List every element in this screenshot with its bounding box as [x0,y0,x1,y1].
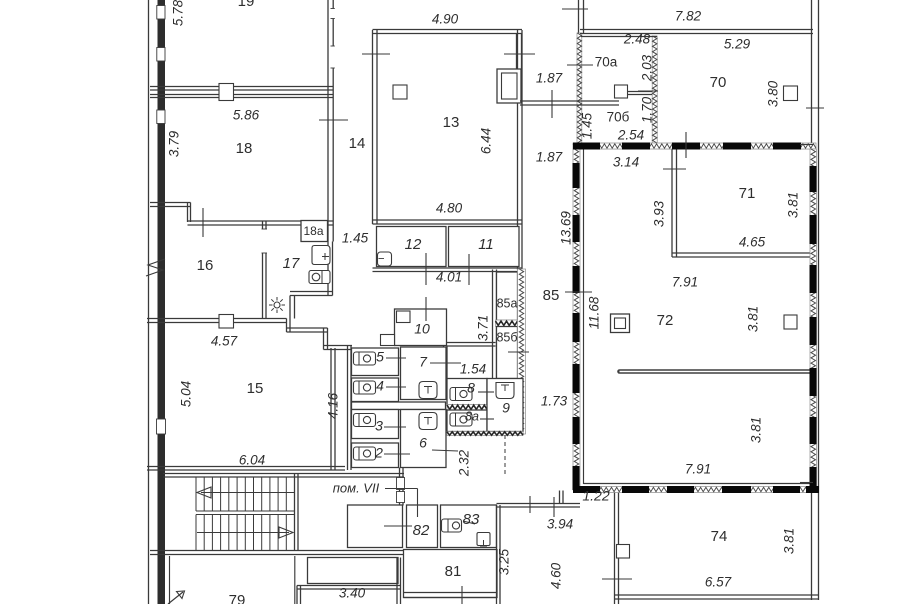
svg-text:6.57: 6.57 [705,575,732,590]
svg-text:81: 81 [445,563,462,580]
step wall y330 [287,327,328,329]
sink fixture room 83 [477,533,490,546]
wall between rooms 19 and 18 [150,86,333,88]
svg-text:1.45: 1.45 [580,112,595,139]
tick top dashed wall [685,132,687,158]
urinal fixture room 8a [450,413,472,426]
svg-text:пом. VII: пом. VII [333,480,380,495]
zigzag divider 85a/85b [496,320,518,327]
svg-text:12: 12 [405,236,422,253]
svg-text:70: 70 [710,74,727,91]
svg-text:18a: 18a [303,224,323,238]
svg-text:72: 72 [657,312,674,329]
svg-text:5: 5 [376,349,384,365]
svg-text:3.81: 3.81 [749,417,764,443]
step wall at x189 [187,203,189,223]
svg-text:3.40: 3.40 [339,586,366,601]
urinal fixture room 8 [450,388,472,401]
closet room 82 box [348,505,403,548]
leader closet 5 [386,357,406,359]
thick dashed boundary right [810,166,817,192]
tick right wall y108 [806,107,824,109]
room 18 top face line [150,94,333,96]
room 81 box [404,550,498,598]
box on wall room15 top [219,315,234,329]
thick dashed boundary left [573,163,580,188]
tick room13 right wall [504,53,535,55]
small box left of room 10 [381,335,395,346]
thick dashed boundary top [573,143,600,150]
svg-text:5.78: 5.78 [171,0,186,26]
svg-text:3.14: 3.14 [613,155,639,170]
room 8 box [447,379,487,406]
svg-text:17: 17 [283,255,300,272]
svg-text:4.57: 4.57 [211,334,238,349]
sink fixture room 17 [309,271,330,284]
svg-text:13.69: 13.69 [559,211,574,245]
tick at 85 label [565,291,592,293]
room 8a box [447,410,487,432]
urinal fixture room 5 [354,352,376,365]
wall x445 between room7 and corridor 1.54 [443,346,445,382]
svg-text:4.60: 4.60 [549,562,564,589]
hatched wall right of room 70a [652,36,657,143]
tick room13 left wall [362,53,390,55]
wall between rooms 16 and 17 [262,221,264,319]
corridor wall piece x561 [559,491,561,504]
stair hall top wall [163,473,404,475]
hatched wall under dashed boundary top [573,143,816,149]
svg-text:4.16: 4.16 [326,392,341,419]
svg-text:2.54: 2.54 [617,128,644,143]
wall room16 top / 18 bottom [188,220,334,222]
svg-text:3.80: 3.80 [766,80,781,107]
niche box on room 74 wall [617,545,630,559]
svg-text:3.71: 3.71 [476,315,491,341]
svg-text:85: 85 [543,287,560,304]
hatched wall under dashed boundary right [810,149,817,491]
svg-text:2.48: 2.48 [623,32,651,47]
svg-text:8: 8 [467,380,475,396]
wall y103 below 70a [520,100,619,102]
svg-text:83: 83 [463,511,480,528]
small square room 72 right [784,315,797,329]
svg-text:5.86: 5.86 [233,108,260,123]
svg-text:14: 14 [349,135,366,152]
svg-text:1.87: 1.87 [536,150,563,165]
svg-text:3.93: 3.93 [652,200,667,227]
toilet fixture room 83 [442,519,462,532]
wall y347 joining closet block [324,345,353,347]
wall top x581 [578,0,580,33]
room 85b box [497,327,518,379]
tick corridor 3.94 [553,497,555,517]
leader closet 2 [384,453,410,455]
svg-text:11: 11 [478,236,494,253]
svg-text:74: 74 [711,528,728,545]
svg-text:3.81: 3.81 [786,192,801,218]
tick wall x330 [319,119,348,121]
svg-text:2: 2 [374,445,383,461]
wall y344 right of room 10 [447,342,496,344]
hatched wall under dashed boundary left [573,149,580,490]
svg-text:6.04: 6.04 [239,453,265,468]
middle closet box [407,505,438,548]
svg-text:3.79: 3.79 [167,130,182,157]
small square room 70 [784,86,798,101]
top wall of rooms 70a/70 [580,29,813,31]
3.40 room left wall [296,586,298,604]
svg-text:4.65: 4.65 [739,235,766,250]
svg-text:3.81: 3.81 [746,306,761,332]
leader room 82 [384,525,412,527]
closet room 5 box [352,348,399,376]
room 11 box [449,227,520,267]
urinal fixture room 2 [354,447,376,460]
room 9 box [487,379,523,432]
shaft box with inner rectangle [497,69,521,103]
slot mid in left wall [157,48,165,62]
wall x401 room6 down to closets [399,468,401,506]
wall above 3.40 room [297,585,401,587]
svg-text:8a: 8a [465,409,479,423]
rooms 12/11 bottom wall [373,267,523,269]
tick room71 left wall [663,168,686,170]
electric box room 70b [615,85,628,98]
stair landing lines [196,510,295,512]
svg-text:4.80: 4.80 [436,201,463,216]
stair up-arrow upper flight [201,492,294,494]
outer wall left thick [158,0,166,604]
room 71 bottom wall [672,252,813,254]
svg-text:85б: 85б [496,330,517,344]
inner face line below top dashed wall [584,148,811,150]
slot upper in left wall [157,6,165,20]
hatched wall left of room 70a [577,33,582,143]
svg-text:79: 79 [229,592,246,604]
ceiling lamp symbol [274,302,280,308]
room 83 box [441,505,497,548]
svg-text:18: 18 [236,140,253,157]
box A right line [294,556,296,604]
window slots in wall x333 [332,9,335,19]
svg-text:11.68: 11.68 [587,296,602,329]
svg-text:7.91: 7.91 [672,275,698,290]
room 7 box [401,347,447,400]
window slot in left wall [157,419,166,434]
entrance arrow bottom-left [168,592,183,604]
svg-text:70a: 70a [595,55,618,70]
tick hatched wall 85b [508,351,529,353]
svg-text:1.70: 1.70 [640,96,655,123]
room 15 bottom wall [147,466,345,468]
tick below room 81 [461,586,463,604]
closet room 2 box [352,443,399,468]
double line from box to wall [628,91,653,93]
hatched wall under dashed boundary bottom [580,487,816,493]
svg-text:70б: 70б [607,110,630,125]
leader room 8a [480,418,494,420]
toilet fixture room 17 [312,246,330,265]
room 18a closet box [301,221,328,242]
sink in room 12 [378,252,392,266]
wall right of room 17 nook [327,242,329,296]
outer wall left thin line [148,0,150,604]
electric panel box on wall 19/18 [219,84,234,101]
inner face line right of left dashed wall [583,149,585,485]
svg-text:5.04: 5.04 [179,381,194,407]
closet room 3 box [352,410,399,439]
svg-text:4: 4 [376,378,384,394]
room 13 left wall [372,30,374,224]
corridor double wall in sanitary block [352,402,446,410]
room 12 box [377,227,447,267]
small square box in room 13 [393,85,407,99]
svg-text:85a: 85a [497,296,518,310]
door niche upper on wall x401 [397,478,405,490]
tick wall y505 [529,496,531,513]
hatched wall right of 85a/85b and room 9 [518,269,526,434]
svg-text:13: 13 [443,114,460,131]
svg-text:4.01: 4.01 [436,270,462,285]
room 6 box [401,410,447,468]
thick dashed boundary bottom [573,486,600,493]
tick room10 top [425,297,427,321]
room 10 box [395,309,447,346]
urinal fixture room 3 [354,414,376,427]
leader closet 4 [386,386,406,388]
step wall x325 [323,328,325,350]
svg-text:2.32: 2.32 [457,449,472,477]
right outer wall [811,0,813,600]
room 13 top wall [373,29,523,31]
slot lower in left wall [157,110,165,124]
zigzag divider rooms 8/8a [447,405,487,411]
svg-text:9: 9 [502,400,510,416]
column inner square [615,318,626,329]
room 15 right wall [330,348,332,470]
svg-text:10: 10 [414,321,430,337]
svg-text:15: 15 [247,380,264,397]
svg-text:7.91: 7.91 [685,462,711,477]
svg-text:71: 71 [739,185,756,202]
wall right of rooms 19/18 [327,0,329,242]
svg-text:4.90: 4.90 [432,12,459,27]
svg-text:3.81: 3.81 [782,528,797,554]
room 71 left wall [671,148,673,257]
room 85a box [497,272,518,321]
room 72 partition wall [620,369,810,374]
svg-text:7: 7 [419,354,428,370]
corridor left wall x349 [347,346,349,471]
small room above 3.40 room [308,558,399,584]
sink fixture room 7 [419,382,437,399]
svg-text:6.44: 6.44 [479,128,494,154]
corridor top wall y505 [497,503,581,505]
room 17 nook bottom wall [290,291,333,293]
leader room 70a [567,64,593,66]
tick wall y268 right [468,254,470,285]
room 81 bottom double wall [404,592,498,594]
door niche lower on wall x401 [397,492,405,503]
thin corner line bottom right [800,482,813,484]
leader closet 3 [384,426,406,428]
thin dashed line below room 9 [504,435,506,475]
column box in room 72 [611,314,630,333]
room 18 bottom-left wall [150,202,191,204]
tick wall x581 top [562,8,588,10]
leader pom VII [385,488,418,490]
leader room 7 [430,362,461,364]
wall x399 bottom area [396,558,398,604]
corridor left wall x498 bottom zone [496,505,498,604]
tick hatched wall 2.03/1.70 [638,90,658,92]
leader room 6 [432,450,458,451]
wall above shaft [516,34,518,70]
room 13 / 11 right wall [517,30,519,270]
room 13 bottom wall [373,219,523,221]
svg-text:1.73: 1.73 [541,394,568,409]
room 74 left wall [614,490,616,604]
hatched bottom wall rooms 8a/9 [447,432,523,436]
sink fixture room 6 [419,413,437,430]
room 70a top inner line [581,36,657,38]
break mark on left wall [146,259,165,276]
svg-text:5.29: 5.29 [724,37,751,52]
svg-text:2.03: 2.03 [640,54,655,82]
stair arrow lower flight [197,532,289,534]
svg-text:1.22: 1.22 [582,488,609,504]
leader room 83 [463,521,475,524]
tick wall y103 [551,90,553,118]
svg-text:1.45: 1.45 [342,231,369,246]
svg-text:1.54: 1.54 [460,362,486,377]
step wall x288 [286,319,288,333]
tick room74 left wall [602,578,632,580]
toilet fixture room 9 [496,383,514,399]
tick wall y268 left [425,253,427,285]
stair hall bottom wall [150,550,404,552]
inner face line above bottom dashed wall [584,483,811,485]
closet room 4 box [352,378,399,402]
svg-text:3.25: 3.25 [497,548,512,575]
svg-text:3: 3 [375,418,383,434]
svg-text:16: 16 [197,257,214,274]
svg-text:82: 82 [413,522,430,539]
leader room 8 [478,391,494,393]
urinal fixture room 4 [354,381,376,394]
inner square room 10 [397,311,411,323]
wall room 16 bottom / room 15 top [147,318,287,320]
room 74 bottom wall [615,594,820,596]
left wall of 85a/85b column [492,270,494,381]
box A left line [169,556,171,604]
thin corner line top right [800,144,813,146]
svg-text:1.87: 1.87 [536,71,563,86]
svg-text:3.94: 3.94 [547,517,573,532]
staircase flights [195,477,197,511]
wall below 17 nook [289,296,291,319]
svg-text:6: 6 [419,435,427,451]
svg-text:19: 19 [238,0,255,10]
svg-text:7.82: 7.82 [675,9,702,24]
tick wall y222 [202,208,204,237]
stair right wall [294,474,296,551]
